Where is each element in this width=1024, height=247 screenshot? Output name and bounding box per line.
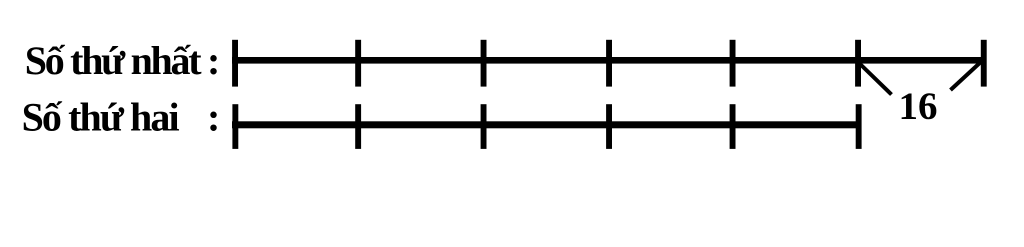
top bar tick 4 bbox=[606, 40, 612, 87]
bottom bar tick 3 bbox=[481, 104, 487, 149]
top bar line bbox=[232, 57, 987, 64]
right pointer line to 16 bbox=[951, 60, 984, 91]
top bar tick 2 bbox=[355, 40, 361, 87]
bottom bar line bbox=[232, 121, 862, 128]
top bar tick 3 bbox=[481, 40, 487, 87]
bottom bar tick 6 bbox=[856, 104, 862, 149]
top bar tick 5 bbox=[730, 40, 736, 87]
svg-text::: : bbox=[207, 95, 220, 140]
bottom bar tick 1 bbox=[232, 104, 238, 149]
svg-text:Số thứ nhất :: Số thứ nhất : bbox=[25, 38, 221, 83]
bottom bar tick 5 bbox=[730, 104, 736, 149]
svg-text:16: 16 bbox=[899, 85, 938, 128]
svg-text:Số thứ hai: Số thứ hai bbox=[22, 95, 180, 140]
top bar tick 6 bbox=[855, 40, 861, 87]
top bar tick 7 bbox=[981, 40, 987, 87]
bottom bar tick 4 bbox=[606, 104, 612, 149]
left pointer line to 16 bbox=[859, 63, 892, 95]
top bar tick 1 bbox=[232, 40, 238, 87]
bottom bar tick 2 bbox=[355, 104, 361, 149]
